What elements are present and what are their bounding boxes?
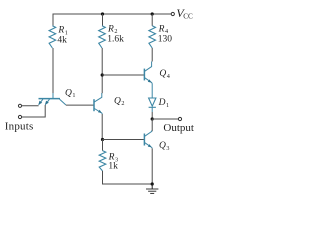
transistor Q1 emitter 2 — [45, 99, 49, 105]
svg-text:1: 1 — [166, 102, 169, 109]
svg-text:Q: Q — [65, 88, 72, 98]
svg-text:R: R — [57, 26, 64, 36]
input terminal circle 2 — [18, 115, 21, 118]
transistor Q4 base bar — [143, 69, 145, 81]
node junction dot output — [151, 117, 154, 120]
svg-text:CC: CC — [183, 13, 193, 21]
svg-text:R: R — [107, 24, 114, 34]
svg-text:Inputs: Inputs — [5, 120, 34, 132]
svg-text:Q: Q — [159, 69, 166, 79]
transistor Q3 collector — [145, 131, 152, 137]
wire input 2 up to emitter 2 — [22, 105, 46, 117]
wire Q4 emitter down to diode — [151, 84, 153, 99]
wire R2 bottom to Q2 collector — [101, 48, 103, 93]
svg-text:3: 3 — [166, 145, 169, 152]
resistor R1 — [49, 26, 56, 48]
transistor Q2 emitter — [94, 109, 102, 115]
wire diode to output node — [151, 107, 153, 112]
diode D1 — [149, 98, 156, 106]
resistor R3 — [99, 151, 106, 171]
svg-text:Q: Q — [159, 141, 166, 151]
wire junction down to R3 — [102, 140, 104, 151]
transistor Q1 (multi-emitter) base bar — [39, 98, 61, 100]
transistor Q3 base bar — [143, 134, 145, 146]
svg-text:130: 130 — [158, 34, 173, 44]
wire Q1 collector to Q2 base — [66, 104, 94, 106]
svg-text:2: 2 — [121, 100, 124, 107]
wire input 1 to emitter 1 — [22, 105, 39, 107]
svg-text:Output: Output — [163, 122, 194, 134]
svg-text:1: 1 — [72, 92, 75, 99]
transistor Q4 emitter — [145, 78, 152, 84]
wire output node to terminal — [152, 118, 178, 120]
svg-text:1k: 1k — [108, 161, 118, 171]
svg-text:D: D — [158, 98, 166, 108]
wire output node down to Q3 collector — [151, 119, 153, 131]
svg-text:1.6k: 1.6k — [107, 34, 124, 44]
svg-text:4k: 4k — [57, 36, 67, 46]
svg-text:R: R — [158, 24, 165, 34]
wire Q3 emitter down to ground — [151, 148, 153, 184]
node junction dot ground — [151, 182, 154, 185]
svg-text:Q: Q — [114, 96, 121, 106]
transistor Q4 collector — [145, 62, 152, 72]
wire junction to Q4 base — [102, 74, 144, 76]
transistor Q2 base bar — [93, 99, 95, 111]
wire R4 bottom to Q4 collector — [151, 48, 153, 62]
wire Q2 emitter down to junction — [101, 114, 103, 140]
transistor Q3 emitter — [145, 143, 152, 149]
wire R3 bottom to ground rail — [103, 171, 153, 184]
node junction dot R2/rail — [101, 12, 104, 15]
svg-text:4: 4 — [167, 73, 170, 80]
transistor Q1 emitter 1 — [39, 99, 43, 105]
node junction dot Q2 emitter / Q3 base / R3 — [101, 138, 104, 141]
wire Vcc top rail with corner down to R1 — [53, 14, 171, 26]
resistor R2 — [102, 14, 104, 26]
wire junction to Q3 base — [103, 139, 144, 141]
resistor R4 — [151, 14, 153, 26]
input terminal circle 1 — [18, 104, 21, 107]
node junction dot R4/rail — [151, 12, 154, 15]
wire R1 bottom to Q1 base — [52, 48, 54, 93]
transistor Q1 collector — [60, 99, 66, 105]
transistor Q2 collector — [94, 93, 101, 102]
node junction dot Q2 collector / Q4 base — [101, 73, 104, 76]
Vcc terminal circle — [171, 12, 174, 15]
ground symbol — [151, 184, 153, 189]
output terminal circle — [178, 117, 181, 120]
